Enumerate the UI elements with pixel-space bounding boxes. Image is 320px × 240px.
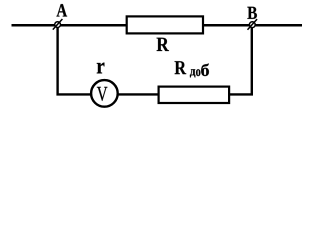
node B terminal (248, 19, 258, 30)
label R (top resistor value) (157, 38, 169, 51)
resistor R (127, 16, 203, 33)
wire: voltmeter to resistor Rdob (114, 93, 160, 95)
wire: top horizontal rail through A and B (12, 24, 303, 27)
label node A (56, 4, 67, 16)
node A terminal (53, 19, 63, 30)
label node B (247, 7, 256, 19)
label r (voltmeter internal resistance) (97, 63, 105, 74)
wire: resistor Rdob up to node B (228, 25, 252, 94)
label Rdob (additional resistor value) (175, 61, 209, 77)
resistor Rdob (159, 87, 230, 103)
wire: from node A down and right to voltmeter (58, 25, 95, 94)
voltmeter U1 (91, 80, 118, 107)
